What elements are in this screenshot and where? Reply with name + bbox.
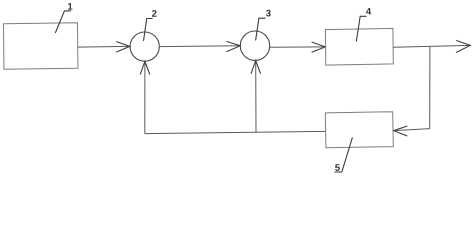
block 5: [325, 112, 393, 148]
node: feedback T junction under summing junction 3: [255, 132, 256, 133]
label 2: [152, 10, 157, 17]
arrowhead output (right edge): [456, 40, 470, 52]
arrowhead into summing junction 2 (left): [116, 42, 130, 53]
leader line for label 1: [55, 11, 71, 33]
leader line for label 5: [335, 138, 353, 173]
leader line for label 4: [356, 16, 366, 41]
block 4: [325, 28, 393, 65]
summing junction 2: [130, 32, 159, 61]
arrowhead into summing junction 3 (bottom): [251, 61, 261, 74]
node: feedback tap junction on output line: [429, 46, 430, 47]
wire: summing junction 2 to summing junction 3: [159, 45, 240, 48]
wire: vertical riser to summing junction 2: [144, 61, 146, 133]
label 4: [366, 8, 371, 15]
label 3: [266, 10, 271, 17]
wire: block 4 output line: [393, 45, 470, 47]
block 1: [4, 23, 78, 70]
arrowhead into summing junction 3 (left): [226, 41, 240, 51]
wire: feedback from block 5 to the left: [145, 131, 325, 133]
leader line for label 2: [144, 19, 153, 41]
arrowhead into block 5 (right): [394, 126, 408, 136]
wire: block 1 output to summing junction 2: [78, 45, 130, 48]
wire: vertical riser to summing junction 3: [255, 61, 257, 133]
label 1: [68, 3, 72, 10]
arrowhead into block 4 (left): [312, 42, 326, 52]
summing junction 3: [240, 31, 269, 60]
wire: feedback into block 5 (right side): [394, 129, 430, 131]
label 5: [335, 164, 340, 171]
arrowhead into summing junction 2 (bottom): [140, 61, 150, 74]
wire: summing junction 3 to block 4: [270, 46, 325, 48]
wire: feedback vertical drop at right: [429, 46, 431, 128]
leader line for label 3: [256, 18, 266, 40]
